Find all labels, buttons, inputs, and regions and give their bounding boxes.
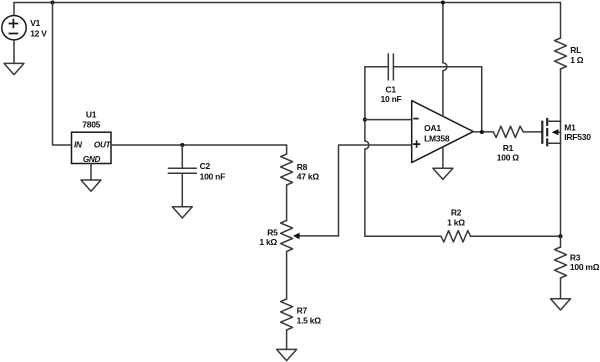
svg-text:LM358: LM358 [424,133,450,143]
svg-text:12 V: 12 V [30,29,47,39]
svg-text:GND: GND [83,155,101,164]
wire V1 bottom to ground [13,40,15,64]
resistor R3 [555,236,567,298]
svg-text:C1: C1 [386,84,397,94]
capacitor C1 [365,54,482,80]
junction dot rail V+ branch [441,1,445,5]
potentiometer R5 [281,220,339,251]
svg-text:R7: R7 [297,305,308,315]
wire M1 source down to sense node [560,143,562,236]
ground below R7 [277,349,297,360]
capacitor C2 [168,145,196,207]
svg-text:R5: R5 [267,227,278,237]
wire inverting node to op-amp minus input [365,119,412,121]
wire rail down to RL [560,3,562,39]
svg-text:7805: 7805 [82,119,100,129]
svg-text:100 nF: 100 nF [200,171,225,181]
svg-text:10 nF: 10 nF [381,94,402,104]
svg-text:1.5 kΩ: 1.5 kΩ [297,316,322,326]
ground below op-amp [433,168,453,179]
wire op-amp V+ up to rail with hop over C1 wire [443,3,447,117]
regulator U1 box [72,132,112,163]
svg-text:U1: U1 [86,110,97,120]
junction dot output node [480,130,484,134]
wire V1 top lead to rail [13,3,15,16]
svg-text:1 kΩ: 1 kΩ [259,237,277,247]
svg-text:100 Ω: 100 Ω [497,153,520,163]
junction dot sense node [559,234,563,238]
svg-text:M1: M1 [564,123,576,133]
svg-text:V1: V1 [30,18,40,28]
ground below V1 [4,63,24,74]
ground below R3 [551,299,571,310]
svg-text:100 mΩ: 100 mΩ [570,262,600,272]
svg-text:OA1: OA1 [424,123,441,133]
svg-text:47 kΩ: 47 kΩ [297,171,320,181]
junction dot rail to U1 branch [51,1,55,5]
svg-text:R1: R1 [503,143,514,153]
svg-text:R2: R2 [451,208,462,218]
wire op-amp output to R1 [473,131,493,133]
svg-text:IRF530: IRF530 [564,132,591,142]
resistor R2 [441,231,471,242]
wire inverting node to R2 [365,235,441,237]
svg-text:RL: RL [570,45,581,55]
wire rail down to U1 IN [53,3,72,146]
junction dot inverting input node [363,118,367,122]
svg-text:1 kΩ: 1 kΩ [447,218,465,228]
svg-text:C2: C2 [200,161,211,171]
wire inverting node vertical with hop over non-inverting wire [365,67,369,237]
resistor R1 [493,126,542,137]
wire top rail [14,2,561,4]
svg-text:OUT: OUT [94,140,112,149]
op-amp OA1 [412,101,474,163]
ground below U1 [81,180,101,191]
resistor R7 [281,251,293,349]
wire U1 GND to ground [90,164,92,181]
voltage source V1 [2,16,26,40]
wire U1 OUT 5V rail to R8 [111,144,287,146]
wire RL to M1 drain [560,69,562,121]
wire R5 wiper up to op-amp non-inverting input [339,145,412,236]
wire C1 feedback down to output node [481,67,483,132]
transistor M1 [542,118,560,146]
resistor R8 [281,145,293,220]
svg-text:R8: R8 [297,162,308,172]
wire op-amp V- down to ground [442,147,444,168]
resistor RL [555,38,567,69]
ground below C2 [172,207,192,218]
svg-text:1 Ω: 1 Ω [570,55,584,65]
wire R2 to sense node [471,235,561,237]
junction dot C2 tap [180,143,184,147]
svg-text:R3: R3 [570,253,581,263]
